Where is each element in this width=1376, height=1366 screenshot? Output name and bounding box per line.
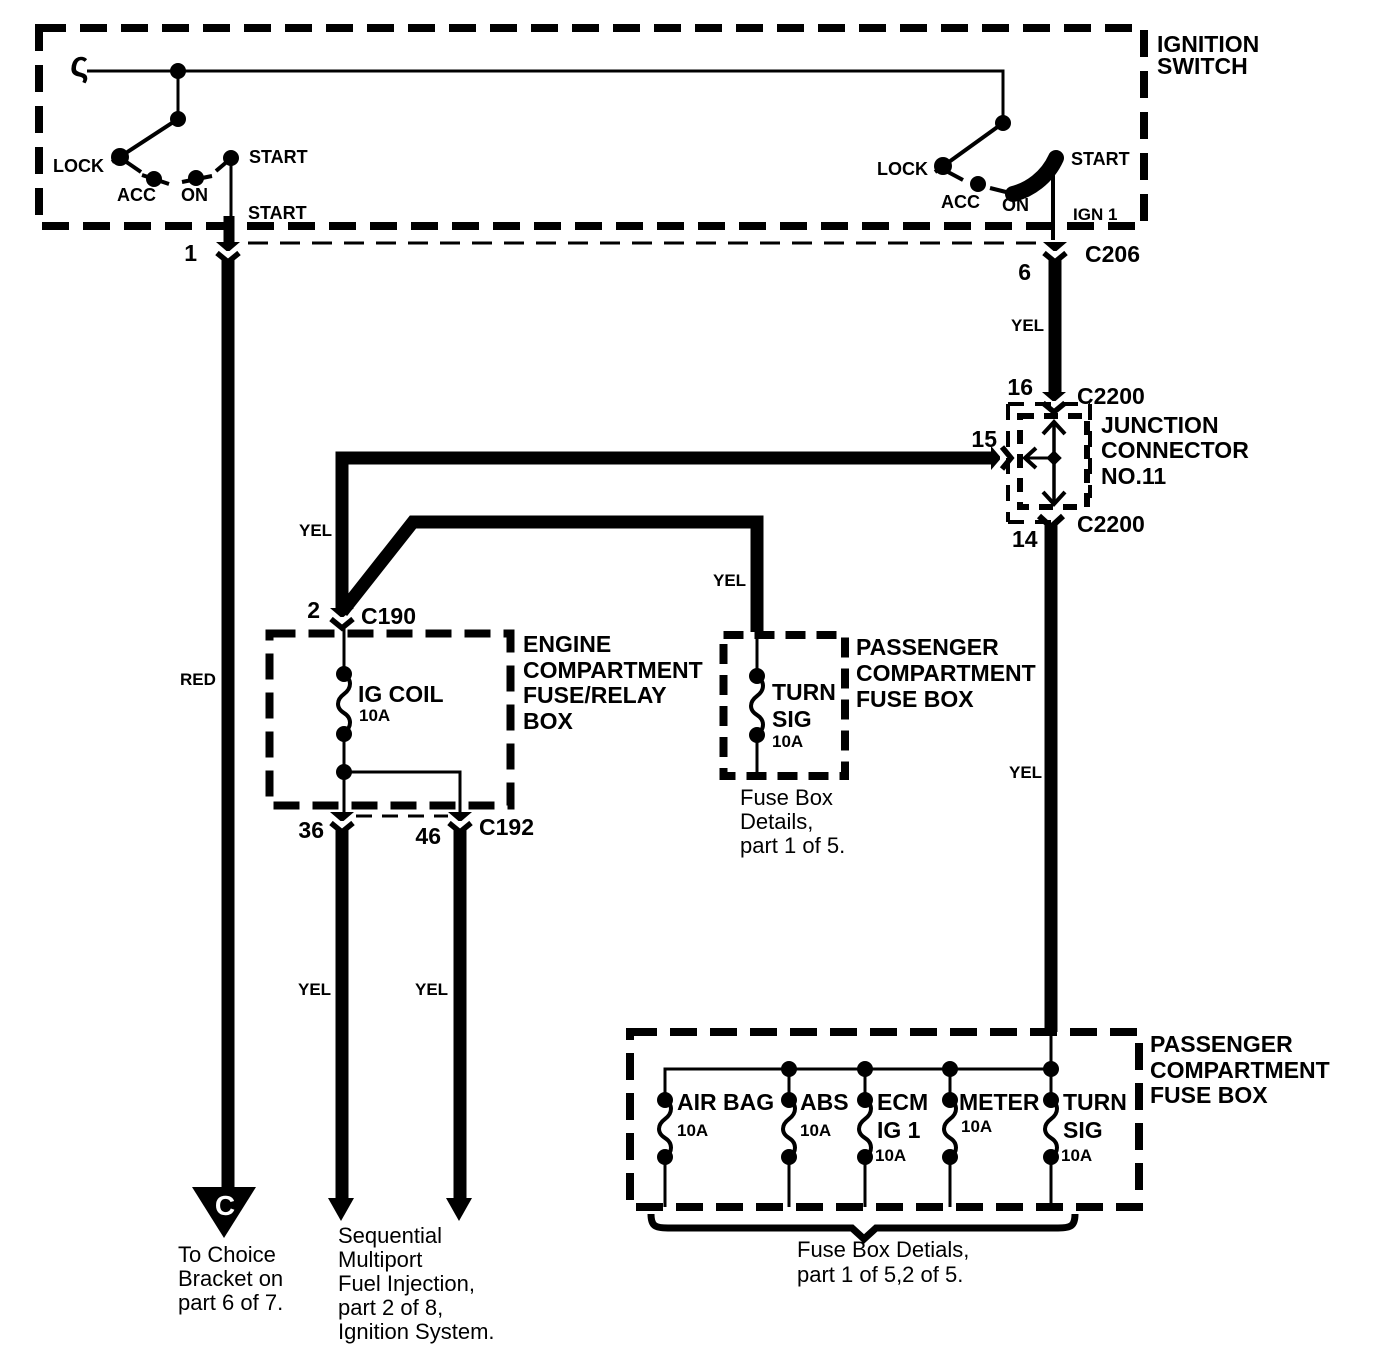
svg-text:LOCK: LOCK [53, 156, 104, 176]
svg-text:COMPARTMENT: COMPARTMENT [523, 657, 703, 683]
svg-text:part 2 of 8,: part 2 of 8, [338, 1295, 443, 1320]
svg-text:PASSENGER: PASSENGER [1150, 1031, 1293, 1057]
svg-text:Fuse Box: Fuse Box [740, 785, 833, 810]
svg-text:START: START [248, 203, 307, 223]
svg-text:METER: METER [959, 1089, 1040, 1115]
svg-text:FUSE BOX: FUSE BOX [1150, 1082, 1268, 1108]
svg-text:10A: 10A [359, 706, 390, 725]
svg-text:JUNCTION: JUNCTION [1101, 412, 1219, 438]
svg-text:COMPARTMENT: COMPARTMENT [856, 660, 1036, 686]
svg-text:AIR BAG: AIR BAG [677, 1089, 774, 1115]
svg-text:ACC: ACC [117, 185, 156, 205]
svg-text:YEL: YEL [299, 521, 332, 540]
svg-text:YEL: YEL [1009, 763, 1042, 782]
svg-text:10A: 10A [772, 732, 803, 751]
svg-text:6: 6 [1018, 259, 1031, 285]
svg-text:To Choice: To Choice [178, 1242, 276, 1267]
svg-text:TURN: TURN [772, 679, 836, 705]
svg-text:10A: 10A [800, 1121, 831, 1140]
svg-text:START: START [1071, 149, 1130, 169]
svg-text:Details,: Details, [740, 809, 813, 834]
svg-text:YEL: YEL [1011, 316, 1044, 335]
svg-text:C190: C190 [361, 603, 416, 629]
svg-text:FUSE/RELAY: FUSE/RELAY [523, 682, 667, 708]
svg-text:ENGINE: ENGINE [523, 631, 611, 657]
svg-text:SWITCH: SWITCH [1157, 53, 1248, 79]
svg-text:NO.11: NO.11 [1101, 463, 1166, 489]
svg-text:YEL: YEL [713, 571, 746, 590]
svg-text:C2200: C2200 [1077, 383, 1145, 409]
svg-text:IG 1: IG 1 [877, 1117, 921, 1143]
svg-text:COMPARTMENT: COMPARTMENT [1150, 1057, 1330, 1083]
svg-text:ECM: ECM [877, 1089, 928, 1115]
svg-text:PASSENGER: PASSENGER [856, 634, 999, 660]
svg-text:BOX: BOX [523, 708, 574, 734]
svg-text:SIG: SIG [1063, 1117, 1103, 1143]
svg-text:part 1 of 5.: part 1 of 5. [740, 833, 845, 858]
svg-text:RED: RED [180, 670, 216, 689]
svg-text:IG COIL: IG COIL [358, 681, 444, 707]
svg-text:ON: ON [181, 185, 208, 205]
svg-text:10A: 10A [961, 1117, 992, 1136]
svg-text:FUSE BOX: FUSE BOX [856, 686, 974, 712]
svg-text:SIG: SIG [772, 706, 812, 732]
svg-text:Fuel Injection,: Fuel Injection, [338, 1271, 475, 1296]
svg-text:36: 36 [298, 817, 324, 843]
svg-text:ON: ON [1002, 195, 1029, 215]
svg-text:Ignition System.: Ignition System. [338, 1319, 495, 1344]
svg-text:C206: C206 [1085, 241, 1140, 267]
svg-text:START: START [249, 147, 308, 167]
svg-text:10A: 10A [1061, 1146, 1092, 1165]
svg-text:CONNECTOR: CONNECTOR [1101, 437, 1249, 463]
svg-text:46: 46 [415, 823, 441, 849]
svg-text:16: 16 [1007, 374, 1033, 400]
svg-text:10A: 10A [875, 1146, 906, 1165]
svg-text:ACC: ACC [941, 192, 980, 212]
svg-text:C192: C192 [479, 814, 534, 840]
svg-text:IGN 1: IGN 1 [1073, 205, 1117, 224]
svg-text:Fuse Box Detials,: Fuse Box Detials, [797, 1237, 969, 1262]
svg-text:LOCK: LOCK [877, 159, 928, 179]
svg-text:Sequential: Sequential [338, 1223, 442, 1248]
svg-text:YEL: YEL [415, 980, 448, 999]
svg-text:C: C [215, 1190, 235, 1221]
svg-text:C2200: C2200 [1077, 511, 1145, 537]
svg-text:YEL: YEL [298, 980, 331, 999]
svg-text:part 6 of 7.: part 6 of 7. [178, 1290, 283, 1315]
svg-text:TURN: TURN [1063, 1089, 1127, 1115]
svg-text:10A: 10A [677, 1121, 708, 1140]
svg-text:14: 14 [1012, 526, 1038, 552]
svg-text:ς: ς [70, 43, 89, 84]
svg-text:Bracket on: Bracket on [178, 1266, 283, 1291]
svg-text:Multiport: Multiport [338, 1247, 422, 1272]
svg-text:2: 2 [307, 597, 320, 623]
svg-text:1: 1 [184, 240, 197, 266]
svg-text:15: 15 [971, 426, 997, 452]
svg-text:ABS: ABS [800, 1089, 849, 1115]
svg-text:part 1 of 5,2 of 5.: part 1 of 5,2 of 5. [797, 1262, 963, 1287]
